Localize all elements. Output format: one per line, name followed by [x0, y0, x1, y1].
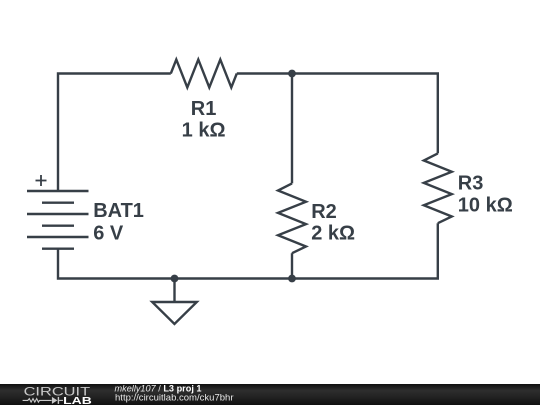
- node B: [288, 275, 296, 283]
- wire R3 bottom to node B: [292, 223, 438, 278]
- wire node B to ground node: [175, 277, 293, 279]
- CircuitLab logo: resistor zigzag: [23, 399, 52, 403]
- node C (ground junction): [171, 275, 179, 283]
- svg-text:10 kΩ: 10 kΩ: [458, 195, 513, 217]
- resistor R2: [278, 183, 306, 253]
- CircuitLab logo: diode arrow: [52, 397, 59, 404]
- wire R1 to node A: [237, 72, 292, 74]
- wire node C to battery bottom: [58, 249, 175, 279]
- svg-text:1 kΩ: 1 kΩ: [182, 120, 226, 142]
- ground: [152, 279, 197, 325]
- CircuitLab logo: diode output line: [59, 399, 63, 401]
- node A: [288, 70, 296, 78]
- svg-text:LAB: LAB: [63, 396, 92, 405]
- svg-text:6 V: 6 V: [93, 222, 124, 244]
- battery plus sign: [36, 175, 47, 186]
- wire node A to R3 top: [292, 74, 438, 154]
- svg-text:R3: R3: [458, 173, 484, 195]
- svg-text:BAT1: BAT1: [93, 200, 144, 222]
- svg-text:2 kΩ: 2 kΩ: [311, 222, 355, 244]
- wire R2 bottom to node B: [291, 253, 293, 278]
- wire top-left: battery top to R1: [58, 74, 171, 192]
- battery BAT1: [27, 191, 89, 249]
- svg-text:R2: R2: [311, 201, 337, 223]
- svg-text:R1: R1: [191, 98, 217, 120]
- wire node A to R2 top: [291, 74, 293, 184]
- svg-text:http://circuitlab.com/cku7bhr: http://circuitlab.com/cku7bhr: [115, 393, 234, 404]
- resistor R3: [424, 153, 452, 223]
- footer bar: [0, 384, 540, 405]
- resistor R1: [171, 60, 237, 88]
